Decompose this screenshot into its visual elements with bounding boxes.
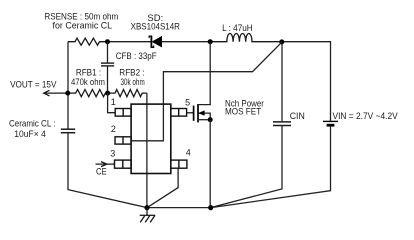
- resistor RSENSE (top, with leads from corner to node A): [68, 38, 108, 45]
- svg-text:10uF× 4: 10uF× 4: [14, 129, 46, 140]
- svg-text:CE: CE: [96, 167, 107, 178]
- svg-text:1: 1: [111, 97, 116, 107]
- svg-text:Ceramic CL :: Ceramic CL :: [9, 118, 56, 129]
- svg-text:MOS FET: MOS FET: [225, 107, 261, 118]
- svg-text:CFB : 33pF: CFB : 33pF: [116, 51, 157, 62]
- capacitor CIN: [273, 122, 291, 126]
- wire : battery minus down then diagonal to ground node G2: [211, 127, 331, 208]
- gate bar: [193, 106, 195, 121]
- wire : pin 2 to switch-node sense (through IC body, up and over to node C): [131, 42, 282, 141]
- battery VIN (long thin plus plate, short thick minus plate): [323, 121, 338, 125]
- wire : node C to top-right corner then down to battery plus: [282, 42, 331, 121]
- resistor RFB2 (30k, from FB node to ground drop): [108, 90, 147, 97]
- svg-text:XBS104S14R: XBS104S14R: [131, 21, 180, 32]
- svg-text:3: 3: [110, 148, 115, 158]
- capacitor CL (output ceramic capacitor): [61, 129, 75, 133]
- svg-text:30k ohm: 30k ohm: [121, 77, 145, 88]
- pin 1 box: [115, 109, 131, 117]
- wire : FB node down then right to pin 1: [108, 93, 116, 113]
- node C junction dot (VIN node, L / CIN / battery / VDD wire): [279, 39, 284, 44]
- wire : CL bottom down then diagonal to ground node: [68, 133, 147, 208]
- node G1 ground junction dot: [144, 205, 149, 210]
- wire : VOUT left rail vertical from top-left corner down to CL cap: [67, 42, 69, 129]
- source lead: [198, 119, 210, 121]
- pin 4 box: [171, 160, 187, 168]
- node VOUT junction dot: [65, 91, 70, 96]
- wire : pin 4 down then diagonal to ground node G1: [147, 168, 178, 207]
- transistor Q1 : Nch power MOSFET: [187, 42, 213, 208]
- resistor RFB1 (470k, between VOUT node and FB node): [68, 90, 108, 97]
- capacitor CFB branch from node A down to FB node: [101, 42, 114, 93]
- ground symbol: [140, 208, 155, 223]
- wire : diode anode to switch node B: [162, 41, 211, 43]
- pin 5 box: [171, 109, 187, 117]
- svg-text:VIN = 2.7V ~4.2V: VIN = 2.7V ~4.2V: [333, 111, 399, 122]
- drain lead and vertical up to node B: [198, 42, 210, 105]
- node B junction dot (switch node, diode anode / L / MOSFET drain): [208, 39, 213, 44]
- source junction dot: [208, 117, 213, 122]
- node FB junction dot: [105, 91, 110, 96]
- inductor L 47uH (four humps between node B and node C): [210, 33, 282, 41]
- gate lead from pin 5: [187, 112, 194, 114]
- source vertical down to ground node G2: [209, 120, 211, 208]
- svg-text:L : 47uH: L : 47uH: [222, 23, 253, 34]
- node G2 ground junction dot: [208, 205, 213, 210]
- body lead with arrow to channel: [198, 113, 210, 120]
- wire : node A to diode cathode: [108, 41, 151, 43]
- wire : ground rail between node G1 and node G2: [147, 207, 211, 209]
- diode SD XBS104S14R (Schottky, cathode left): [149, 36, 161, 48]
- svg-text:5: 5: [185, 97, 190, 107]
- wire : node C down to CIN top plate: [281, 42, 283, 121]
- IC U1 body (5-pin DC/DC controller): [131, 104, 171, 173]
- channel bar: [197, 104, 199, 122]
- svg-text:CIN: CIN: [290, 111, 305, 122]
- node A junction dot (RSENSE / diode / CFB): [105, 39, 110, 44]
- svg-text:4: 4: [186, 147, 191, 157]
- VOUT arrow (points left from VOUT node): [44, 90, 68, 96]
- svg-text:470k ohm: 470k ohm: [71, 77, 105, 88]
- svg-text:2: 2: [111, 124, 116, 134]
- wire : RFB2 right end vertical drop through IC to ground node G1: [146, 93, 148, 208]
- pin 3 box: [115, 160, 132, 168]
- wire : CIN bottom down then diagonal to ground node G2: [211, 126, 282, 208]
- svg-text:for Ceramic CL: for Ceramic CL: [53, 20, 113, 31]
- pin 2 box: [115, 137, 131, 144]
- svg-text:VOUT = 15V: VOUT = 15V: [10, 79, 57, 90]
- wire : CE input line with arrow into pin 3: [96, 162, 115, 167]
